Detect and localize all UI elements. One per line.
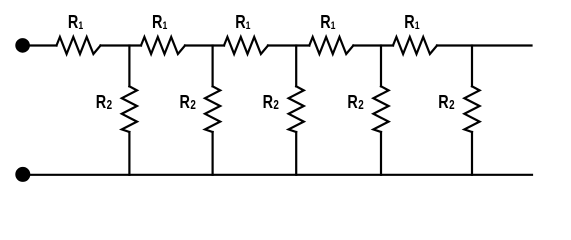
wire: top rail, R1#2 to R1#3 (node 2) [185,44,224,46]
wire: top rail, R1#4 to R1#5 (node 4) [353,44,393,46]
wire: shunt branch 5 lower stub [471,132,473,175]
wire: top rail, R1#1 to R1#2 (node 1) [101,44,142,46]
wire: shunt branch 1 upper stub [128,46,130,87]
label R2 (shunt 3) [263,92,279,112]
wire: shunt branch 2 lower stub [212,132,214,175]
svg-text:R2: R2 [438,92,454,112]
wire: top rail, R1#5 to right end (node 5) [437,44,532,46]
svg-text:R2: R2 [96,92,112,112]
resistor R2 (shunt 3) [289,86,304,132]
resistor R1 (section 2, series) [141,37,185,54]
terminal (bottom-left input dot) [15,167,30,182]
svg-text:R2: R2 [263,92,279,112]
svg-text:R2: R2 [180,92,196,112]
label R1 (section 4) [320,13,336,33]
svg-text:R1: R1 [152,13,168,33]
wire: top rail, R1#3 to R1#4 (node 3) [268,44,309,46]
resistor R2 (shunt 5) [464,86,479,132]
label R2 (shunt 2) [180,92,196,112]
wire: top rail, terminal to R1#1 [23,44,57,46]
resistor R2 (shunt 4) [373,86,388,132]
label R1 (section 2) [152,13,168,33]
wire: shunt branch 4 lower stub [380,132,382,175]
terminal (top-left input dot) [15,38,30,53]
svg-text:R1: R1 [320,13,336,33]
resistor R2 (shunt 2) [205,86,220,132]
svg-text:R2: R2 [347,92,363,112]
label R1 (section 1) [68,13,84,33]
svg-text:R1: R1 [68,13,84,33]
label R2 (shunt 4) [347,92,363,112]
wire: shunt branch 1 lower stub [128,132,130,175]
label R1 (section 5) [404,13,420,33]
wire: shunt branch 3 lower stub [295,132,297,175]
wire: shunt branch 4 upper stub [380,46,382,87]
wire: bottom rail (common return) [23,174,532,176]
wire: shunt branch 2 upper stub [212,46,214,87]
resistor R2 (shunt 1) [122,86,137,132]
label R2 (shunt 5) [438,92,454,112]
wire: shunt branch 3 upper stub [295,46,297,87]
svg-text:R1: R1 [235,13,251,33]
label R2 (shunt 1) [96,92,112,112]
resistor R1 (section 3, series) [224,37,268,54]
label R1 (section 3) [235,13,251,33]
resistor R1 (section 5, series) [393,37,437,54]
wire: shunt branch 5 upper stub [471,46,473,87]
svg-text:R1: R1 [404,13,420,33]
resistor R1 (section 4, series) [309,37,353,54]
resistor R1 (section 1, series) [57,37,101,54]
